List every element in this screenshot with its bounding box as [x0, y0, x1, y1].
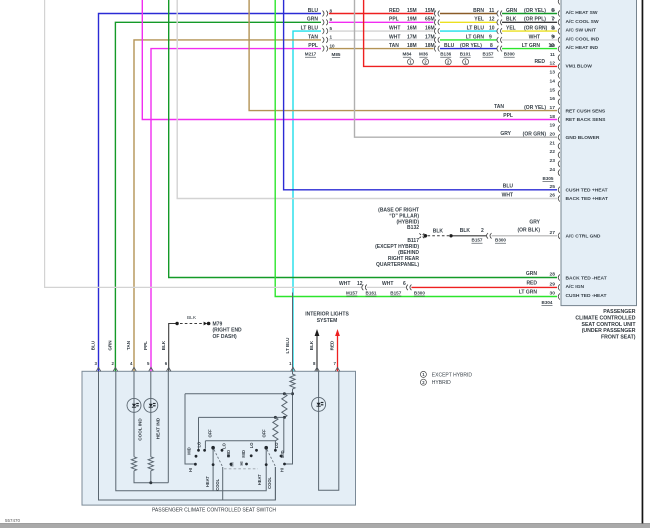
- svg-text:16M: 16M: [407, 26, 417, 32]
- svg-text:B300: B300: [414, 290, 425, 295]
- svg-text:2: 2: [481, 228, 484, 234]
- svg-text:INTERIOR LIGHTS: INTERIOR LIGHTS: [305, 311, 349, 317]
- svg-text:(OR YEL): (OR YEL): [460, 43, 482, 49]
- svg-text:TAN: TAN: [126, 340, 131, 350]
- svg-text:B157: B157: [472, 238, 483, 243]
- wire BLK dashed from B132/B117 ground: [428, 235, 450, 237]
- svg-text:BRN: BRN: [473, 8, 484, 14]
- svg-text:A/C CTRL GND: A/C CTRL GND: [566, 234, 601, 240]
- wire LT BLU 10 between M36 and B136: [440, 30, 497, 32]
- wire BLK dashed to M79: [180, 323, 203, 325]
- svg-text:14: 14: [550, 78, 556, 84]
- svg-text:M157: M157: [346, 290, 358, 295]
- svg-text:EXCEPT HYBRID: EXCEPT HYBRID: [432, 372, 473, 378]
- switch pin entry arrows: [96, 367, 340, 371]
- resistor below HEAT IND: [148, 457, 153, 471]
- legend circle 1 under M84: [408, 59, 414, 65]
- rotated wire labels at switch pins: [91, 337, 335, 354]
- svg-text:HEAT: HEAT: [257, 474, 262, 485]
- svg-text:LT GRN: LT GRN: [522, 43, 541, 49]
- svg-text:1: 1: [330, 35, 333, 40]
- svg-text:BLK: BLK: [187, 315, 197, 321]
- bottom page divider bar: [0, 524, 650, 528]
- passenger climate controlled seat control unit block: [561, 0, 637, 306]
- wire LT BLU M217 pin5 to switch pin1: [293, 31, 321, 371]
- svg-text:6: 6: [403, 281, 406, 287]
- switch gang1 wiper (dashed): [214, 450, 222, 467]
- connector B157/B300 on pin27 wire: [487, 233, 492, 239]
- wire BLK to A/C COOL SW pin7: [502, 21, 557, 23]
- svg-text:LT GRN: LT GRN: [519, 290, 538, 296]
- svg-text:LT BLU: LT BLU: [467, 26, 485, 32]
- connector B136/B101/B157/B300 (5 rows): [497, 11, 502, 52]
- arrow to interior lights (RED): [335, 329, 340, 336]
- svg-text:GRY: GRY: [529, 219, 540, 225]
- svg-text:(UNDER PASSENGER: (UNDER PASSENGER: [582, 328, 636, 334]
- svg-text:9: 9: [330, 17, 333, 22]
- svg-text:22: 22: [550, 149, 556, 155]
- svg-text:BLK: BLK: [309, 340, 314, 350]
- wire YEL to A/C SW UNIT pin8: [502, 30, 557, 32]
- resistor below COOL IND: [131, 457, 136, 471]
- switch gang1 contacts and pole: [194, 446, 232, 466]
- switch gang labels: [186, 429, 285, 472]
- wire WHT 16M between M85 and M84: [329, 30, 434, 32]
- switch wire pin1 column: [285, 389, 293, 464]
- svg-text:24: 24: [550, 167, 556, 173]
- svg-text:23: 23: [550, 158, 556, 164]
- svg-text:B300: B300: [495, 238, 506, 243]
- svg-text:A/C IGN: A/C IGN: [566, 284, 585, 290]
- wire RED to A/C IGN pin29: [411, 286, 557, 288]
- label M79 (RIGHT END OF DASH): [213, 321, 243, 340]
- svg-text:10: 10: [489, 26, 495, 32]
- svg-text:WHT: WHT: [382, 281, 393, 287]
- LED lamp HEAT IND: [144, 398, 158, 412]
- svg-text:WHT: WHT: [339, 281, 350, 287]
- svg-text:(OR YEL): (OR YEL): [524, 105, 546, 111]
- connector M217/M85 (5 rows): [323, 11, 328, 52]
- switch wire mid distribution: [199, 416, 285, 418]
- svg-text:WHT: WHT: [502, 192, 513, 198]
- svg-text:B157: B157: [390, 290, 401, 295]
- svg-text:BLK: BLK: [161, 340, 166, 350]
- svg-text:9: 9: [489, 34, 492, 40]
- svg-text:GRN: GRN: [506, 8, 518, 14]
- wire BLK switch pin8 to interior lights: [316, 336, 318, 372]
- switch wire drop to MID2: [283, 417, 285, 452]
- wire PPL to RET BACK SENS pin18: [142, 0, 557, 120]
- svg-text:M85: M85: [332, 52, 341, 57]
- svg-text:GND BLOWER: GND BLOWER: [566, 135, 600, 141]
- svg-text:19: 19: [550, 123, 556, 129]
- junction dot mid wire right: [283, 416, 286, 419]
- svg-text:PPL: PPL: [143, 341, 148, 350]
- svg-text:TAN: TAN: [389, 43, 399, 49]
- switch wire gang1 cool drop: [222, 467, 224, 500]
- svg-text:10: 10: [330, 43, 336, 48]
- svg-text:10: 10: [548, 43, 554, 49]
- junction dot LED common: [149, 481, 152, 484]
- svg-text:13: 13: [550, 70, 556, 76]
- svg-text:BLK: BLK: [460, 228, 471, 234]
- wire GRY to GND BLOWER pin20: [355, 0, 558, 137]
- wire BRN 11 between M36 and B136: [440, 13, 497, 15]
- wire GRN to BACK TED -HEAT pin28: [169, 0, 557, 278]
- switch wire pin2 rail: [116, 371, 266, 491]
- svg-text:HEAT: HEAT: [205, 476, 210, 487]
- svg-text:BLK: BLK: [433, 228, 444, 234]
- svg-text:B157: B157: [483, 52, 494, 57]
- svg-text:VM1 BLOW: VM1 BLOW: [566, 64, 593, 70]
- svg-text:OFF: OFF: [208, 429, 213, 438]
- svg-text:65M: 65M: [425, 17, 435, 23]
- svg-text:A/C COOL IND: A/C COOL IND: [566, 37, 600, 43]
- switch HEAT/COOL labels: [205, 474, 272, 491]
- control unit pin function labels: [566, 10, 608, 299]
- LED lamp interior illumination: [312, 397, 326, 411]
- svg-text:BLU: BLU: [91, 340, 96, 350]
- wire BLU M217 pin8 to switch pin3: [99, 14, 322, 372]
- wire BLU 8 between M36 and B136: [440, 48, 497, 50]
- wire PPL 19M between M85 and M84: [329, 21, 434, 23]
- svg-text:11: 11: [550, 52, 555, 58]
- svg-text:MID: MID: [186, 447, 191, 455]
- arrow to interior lights (BLK): [315, 329, 320, 336]
- svg-text:SYSTEM: SYSTEM: [317, 318, 338, 324]
- switch wire pin8 through lamp to pin7 loop: [319, 371, 339, 490]
- svg-text:HI: HI: [230, 462, 235, 466]
- switch wire pin3 rail: [99, 371, 276, 500]
- svg-text:7: 7: [551, 17, 554, 23]
- switch wire gang1 heat drop: [212, 448, 214, 491]
- svg-text:M84: M84: [403, 52, 412, 57]
- svg-text:(OR YEL): (OR YEL): [524, 8, 546, 14]
- resistor on switch pin1 column: [290, 293, 295, 390]
- svg-text:11: 11: [489, 8, 495, 14]
- svg-text:LO: LO: [197, 441, 202, 448]
- switch gang2 contacts and pole: [245, 446, 286, 466]
- svg-text:COOL IND: COOL IND: [138, 418, 143, 441]
- svg-text:GRN: GRN: [307, 17, 319, 23]
- switch wire resistor2 to common: [150, 471, 152, 483]
- svg-text:BLU: BLU: [308, 8, 319, 14]
- svg-text:HI: HI: [188, 468, 193, 472]
- legend circle 2 under M36: [423, 59, 429, 65]
- svg-text:(OR BLK): (OR BLK): [518, 227, 541, 233]
- wire RED 15M between M85 and M84: [329, 13, 434, 15]
- svg-text:YEL: YEL: [474, 17, 484, 23]
- svg-text:8: 8: [551, 26, 554, 32]
- wire labels RED/PPL/WHT/WHT/TAN with circuit numbers: [389, 8, 435, 49]
- svg-text:A/C HEAT SW: A/C HEAT SW: [566, 10, 598, 16]
- svg-text:COOL: COOL: [267, 476, 272, 488]
- svg-text:OFF: OFF: [262, 429, 267, 438]
- connector pin sockets on control unit edge: [558, 0, 560, 300]
- labels WHT 12 WHT 6 on A/C IGN wire: [339, 281, 406, 287]
- connector M157/B161 on pin29 wire: [362, 285, 367, 291]
- legend circle 1 under B101: [463, 59, 469, 65]
- svg-text:B101: B101: [460, 52, 471, 57]
- splice dot on BLK ground wire: [449, 234, 452, 237]
- svg-text:12: 12: [357, 281, 363, 287]
- svg-text:RED: RED: [526, 280, 537, 286]
- wire WHT 6 between B161 and B157: [367, 286, 406, 288]
- switch wire left drop to HI: [185, 394, 195, 464]
- svg-text:LO: LO: [222, 442, 227, 449]
- resistor R3 in switch: [273, 417, 278, 440]
- svg-text:QUARTERPANEL): QUARTERPANEL): [376, 262, 419, 268]
- svg-text:9: 9: [551, 34, 554, 40]
- svg-text:6: 6: [551, 8, 554, 14]
- svg-text:5: 5: [330, 26, 333, 31]
- svg-text:COOL: COOL: [215, 478, 220, 490]
- svg-text:HI: HI: [279, 468, 284, 472]
- svg-text:BLU: BLU: [444, 43, 455, 49]
- svg-text:PPL: PPL: [308, 43, 318, 49]
- svg-text:B300: B300: [504, 52, 515, 57]
- connector M84/M36 (5 rows): [434, 11, 439, 52]
- resistor R2 in switch: [282, 394, 287, 418]
- wire WHT 17M between M85 and M84: [329, 39, 434, 41]
- svg-text:18M: 18M: [425, 43, 435, 49]
- legend circle 1: [420, 371, 426, 377]
- switch wire pin5 through HEAT IND lamp to resistor: [150, 371, 152, 457]
- svg-text:15M: 15M: [425, 8, 435, 14]
- svg-text:A/C COOL SW: A/C COOL SW: [566, 19, 599, 25]
- svg-text:GRN: GRN: [526, 271, 538, 277]
- switch wire R3 to LO2: [274, 441, 276, 450]
- svg-text:RED: RED: [389, 8, 400, 14]
- svg-text:YEL: YEL: [506, 26, 516, 32]
- svg-text:557470: 557470: [5, 518, 21, 523]
- svg-text:27: 27: [550, 230, 556, 236]
- legend circle 2 under B136: [445, 59, 451, 65]
- wire BLK 2 to B157: [451, 235, 486, 237]
- switch wire resistor to common: [134, 471, 168, 483]
- wire WHT to BACK TED +HEAT pin26: [177, 0, 557, 199]
- svg-text:(OR GRN): (OR GRN): [523, 131, 547, 137]
- svg-text:A/C SW UNIT: A/C SW UNIT: [566, 27, 596, 33]
- svg-text:(OR PPL): (OR PPL): [524, 17, 546, 23]
- switch wire gang2 cool drop: [274, 467, 276, 500]
- svg-text:B305: B305: [543, 176, 554, 181]
- svg-text:OF DASH): OF DASH): [213, 334, 238, 340]
- svg-text:HI: HI: [239, 461, 244, 465]
- svg-text:(OR GRN): (OR GRN): [524, 26, 548, 32]
- wire PPL M217 pin10 to switch pin5: [151, 49, 321, 372]
- svg-text:BLU: BLU: [503, 184, 514, 190]
- wire LT GRN to A/C HEAT IND pin10: [502, 48, 557, 50]
- switch wire pin6 ground column: [167, 371, 169, 482]
- svg-text:LT GRN: LT GRN: [466, 34, 485, 40]
- svg-text:(RIGHT END: (RIGHT END: [213, 328, 243, 334]
- svg-text:12: 12: [489, 17, 495, 23]
- svg-text:18M: 18M: [407, 43, 417, 49]
- svg-text:CLIMATE CONTROLLED: CLIMATE CONTROLLED: [575, 316, 635, 322]
- svg-text:BACK TED -HEAT: BACK TED -HEAT: [566, 275, 607, 281]
- svg-text:8: 8: [490, 43, 493, 49]
- svg-text:GRN: GRN: [108, 340, 113, 351]
- wire RED to VM1 BLOW pin12: [364, 0, 557, 66]
- switch wire drop to OFF1: [204, 441, 206, 449]
- svg-text:RED: RED: [330, 340, 335, 350]
- svg-text:16: 16: [550, 96, 556, 102]
- pin numbers at M217: [330, 8, 336, 48]
- svg-text:LT BLU: LT BLU: [301, 26, 319, 32]
- wire GRY to A/C CTRL GND pin27: [492, 235, 557, 237]
- svg-text:21: 21: [550, 140, 556, 146]
- wire GRN to A/C HEAT SW pin6: [502, 13, 557, 15]
- junction dot BLK ground: [175, 322, 178, 325]
- control unit caption text: [575, 309, 636, 340]
- wire TAN 18M between M85 and M84: [329, 48, 434, 50]
- svg-text:16M: 16M: [425, 26, 435, 32]
- svg-text:PASSENGER: PASSENGER: [603, 309, 635, 315]
- label INTERIOR LIGHTS SYSTEM: [305, 311, 349, 324]
- wire labels BRN/YEL/LT BLU/LT GRN/BLU with pin numbers: [444, 8, 495, 49]
- connector M79 (arrow and dot): [204, 322, 208, 326]
- svg-text:TAN: TAN: [494, 104, 504, 110]
- svg-text:M79: M79: [213, 321, 223, 327]
- switch wire top distribution: [185, 393, 293, 395]
- wire WHT 12 from top left to M157: [45, 0, 362, 287]
- svg-text:GRY: GRY: [500, 131, 511, 137]
- switch pin numbers: [95, 361, 337, 366]
- svg-text:LO: LO: [249, 442, 254, 449]
- svg-text:RET CUSH SENS: RET CUSH SENS: [566, 108, 606, 114]
- svg-text:PPL: PPL: [389, 17, 399, 23]
- connector B157/B300 on pin29 wire: [406, 285, 411, 291]
- switch wire left drop to LO: [198, 417, 200, 449]
- junction dot R2 top: [283, 392, 286, 395]
- svg-text:A/C HEAT IND: A/C HEAT IND: [566, 45, 599, 51]
- svg-text:TAN: TAN: [308, 34, 318, 40]
- svg-text:MID: MID: [241, 450, 246, 458]
- page border line right: [642, 0, 644, 524]
- svg-text:PPL: PPL: [503, 113, 513, 119]
- svg-text:WHT: WHT: [529, 34, 540, 40]
- svg-text:MID: MID: [280, 450, 285, 458]
- svg-text:CUSH TED -HEAT: CUSH TED -HEAT: [566, 293, 607, 299]
- svg-text:HEAT IND: HEAT IND: [155, 417, 160, 439]
- wire color labels at M217: [301, 8, 319, 49]
- svg-text:SEAT CONTROL UNIT: SEAT CONTROL UNIT: [582, 322, 637, 328]
- legend circle 2: [420, 379, 426, 385]
- svg-text:RET BACK SENS: RET BACK SENS: [566, 117, 607, 123]
- ground connector at B132 (star): [419, 233, 424, 238]
- svg-text:15: 15: [550, 87, 556, 93]
- LED lamp COOL IND: [127, 398, 141, 412]
- switch gang coupling line (dashed): [224, 468, 258, 470]
- switch wire pin4 through COOL IND lamp to resistor: [133, 371, 135, 457]
- wire RED switch pin7 to interior lights: [337, 336, 339, 372]
- svg-text:17M: 17M: [425, 34, 435, 40]
- svg-text:FRONT SEAT): FRONT SEAT): [601, 335, 636, 341]
- junction dot pin1/topwire: [291, 392, 294, 395]
- svg-text:M217: M217: [305, 52, 317, 57]
- svg-text:B161: B161: [366, 290, 377, 295]
- switch gang2 wiper (dashed): [267, 450, 275, 467]
- svg-text:PASSENGER CLIMATE CONTROLLED S: PASSENGER CLIMATE CONTROLLED SEAT SWITCH: [152, 508, 276, 514]
- wire WHT to A/C COOL IND pin9: [502, 39, 557, 41]
- svg-text:BACK TED +HEAT: BACK TED +HEAT: [566, 196, 608, 202]
- svg-text:BLK: BLK: [506, 17, 517, 23]
- svg-text:MID: MID: [226, 450, 231, 458]
- wire BLK switch pin6 ground: [169, 324, 177, 372]
- svg-text:19M: 19M: [407, 17, 417, 23]
- wire YEL 12 between M36 and B136: [440, 21, 497, 23]
- wire BLU to CUSH TED +HEAT pin25: [284, 0, 557, 190]
- svg-text:LO: LO: [274, 442, 279, 449]
- svg-text:LT BLU: LT BLU: [285, 337, 290, 354]
- wire GRN M217 pin9 to switch pin2: [115, 22, 321, 371]
- label B132/B117 location note: [375, 208, 419, 268]
- wire LT GRN 9 between M36 and B136: [440, 39, 497, 41]
- svg-text:WHT: WHT: [389, 26, 400, 32]
- svg-text:WHT: WHT: [389, 34, 400, 40]
- pin socket (cut off top row): [558, 0, 560, 4]
- passenger climate controlled seat switch box: [82, 371, 356, 505]
- svg-text:HYBRID: HYBRID: [432, 380, 451, 386]
- svg-text:RED: RED: [534, 59, 545, 65]
- svg-text:B304: B304: [542, 300, 553, 305]
- wire labels GRN/BLK/YEL/WHT/LT GRN at block pins 6-10: [506, 8, 554, 49]
- svg-text:17M: 17M: [407, 34, 417, 40]
- svg-text:15M: 15M: [407, 8, 417, 14]
- junction dot mid wire R3: [274, 416, 277, 419]
- wire LT GRN to CUSH TED -HEAT pin30: [275, 0, 557, 297]
- svg-text:B132: B132: [407, 225, 419, 231]
- svg-text:8: 8: [330, 8, 333, 13]
- pin numbers 6-30 on control unit: [550, 8, 556, 297]
- svg-text:CUSH TED +HEAT: CUSH TED +HEAT: [566, 187, 608, 193]
- wire TAN to RET CUSH SENS pin17: [249, 0, 557, 111]
- wire TAN M217 pin1 to switch pin4: [134, 40, 321, 371]
- svg-text:M36: M36: [419, 52, 428, 57]
- switch wire lower distribution: [205, 440, 275, 442]
- svg-text:B136: B136: [440, 52, 451, 57]
